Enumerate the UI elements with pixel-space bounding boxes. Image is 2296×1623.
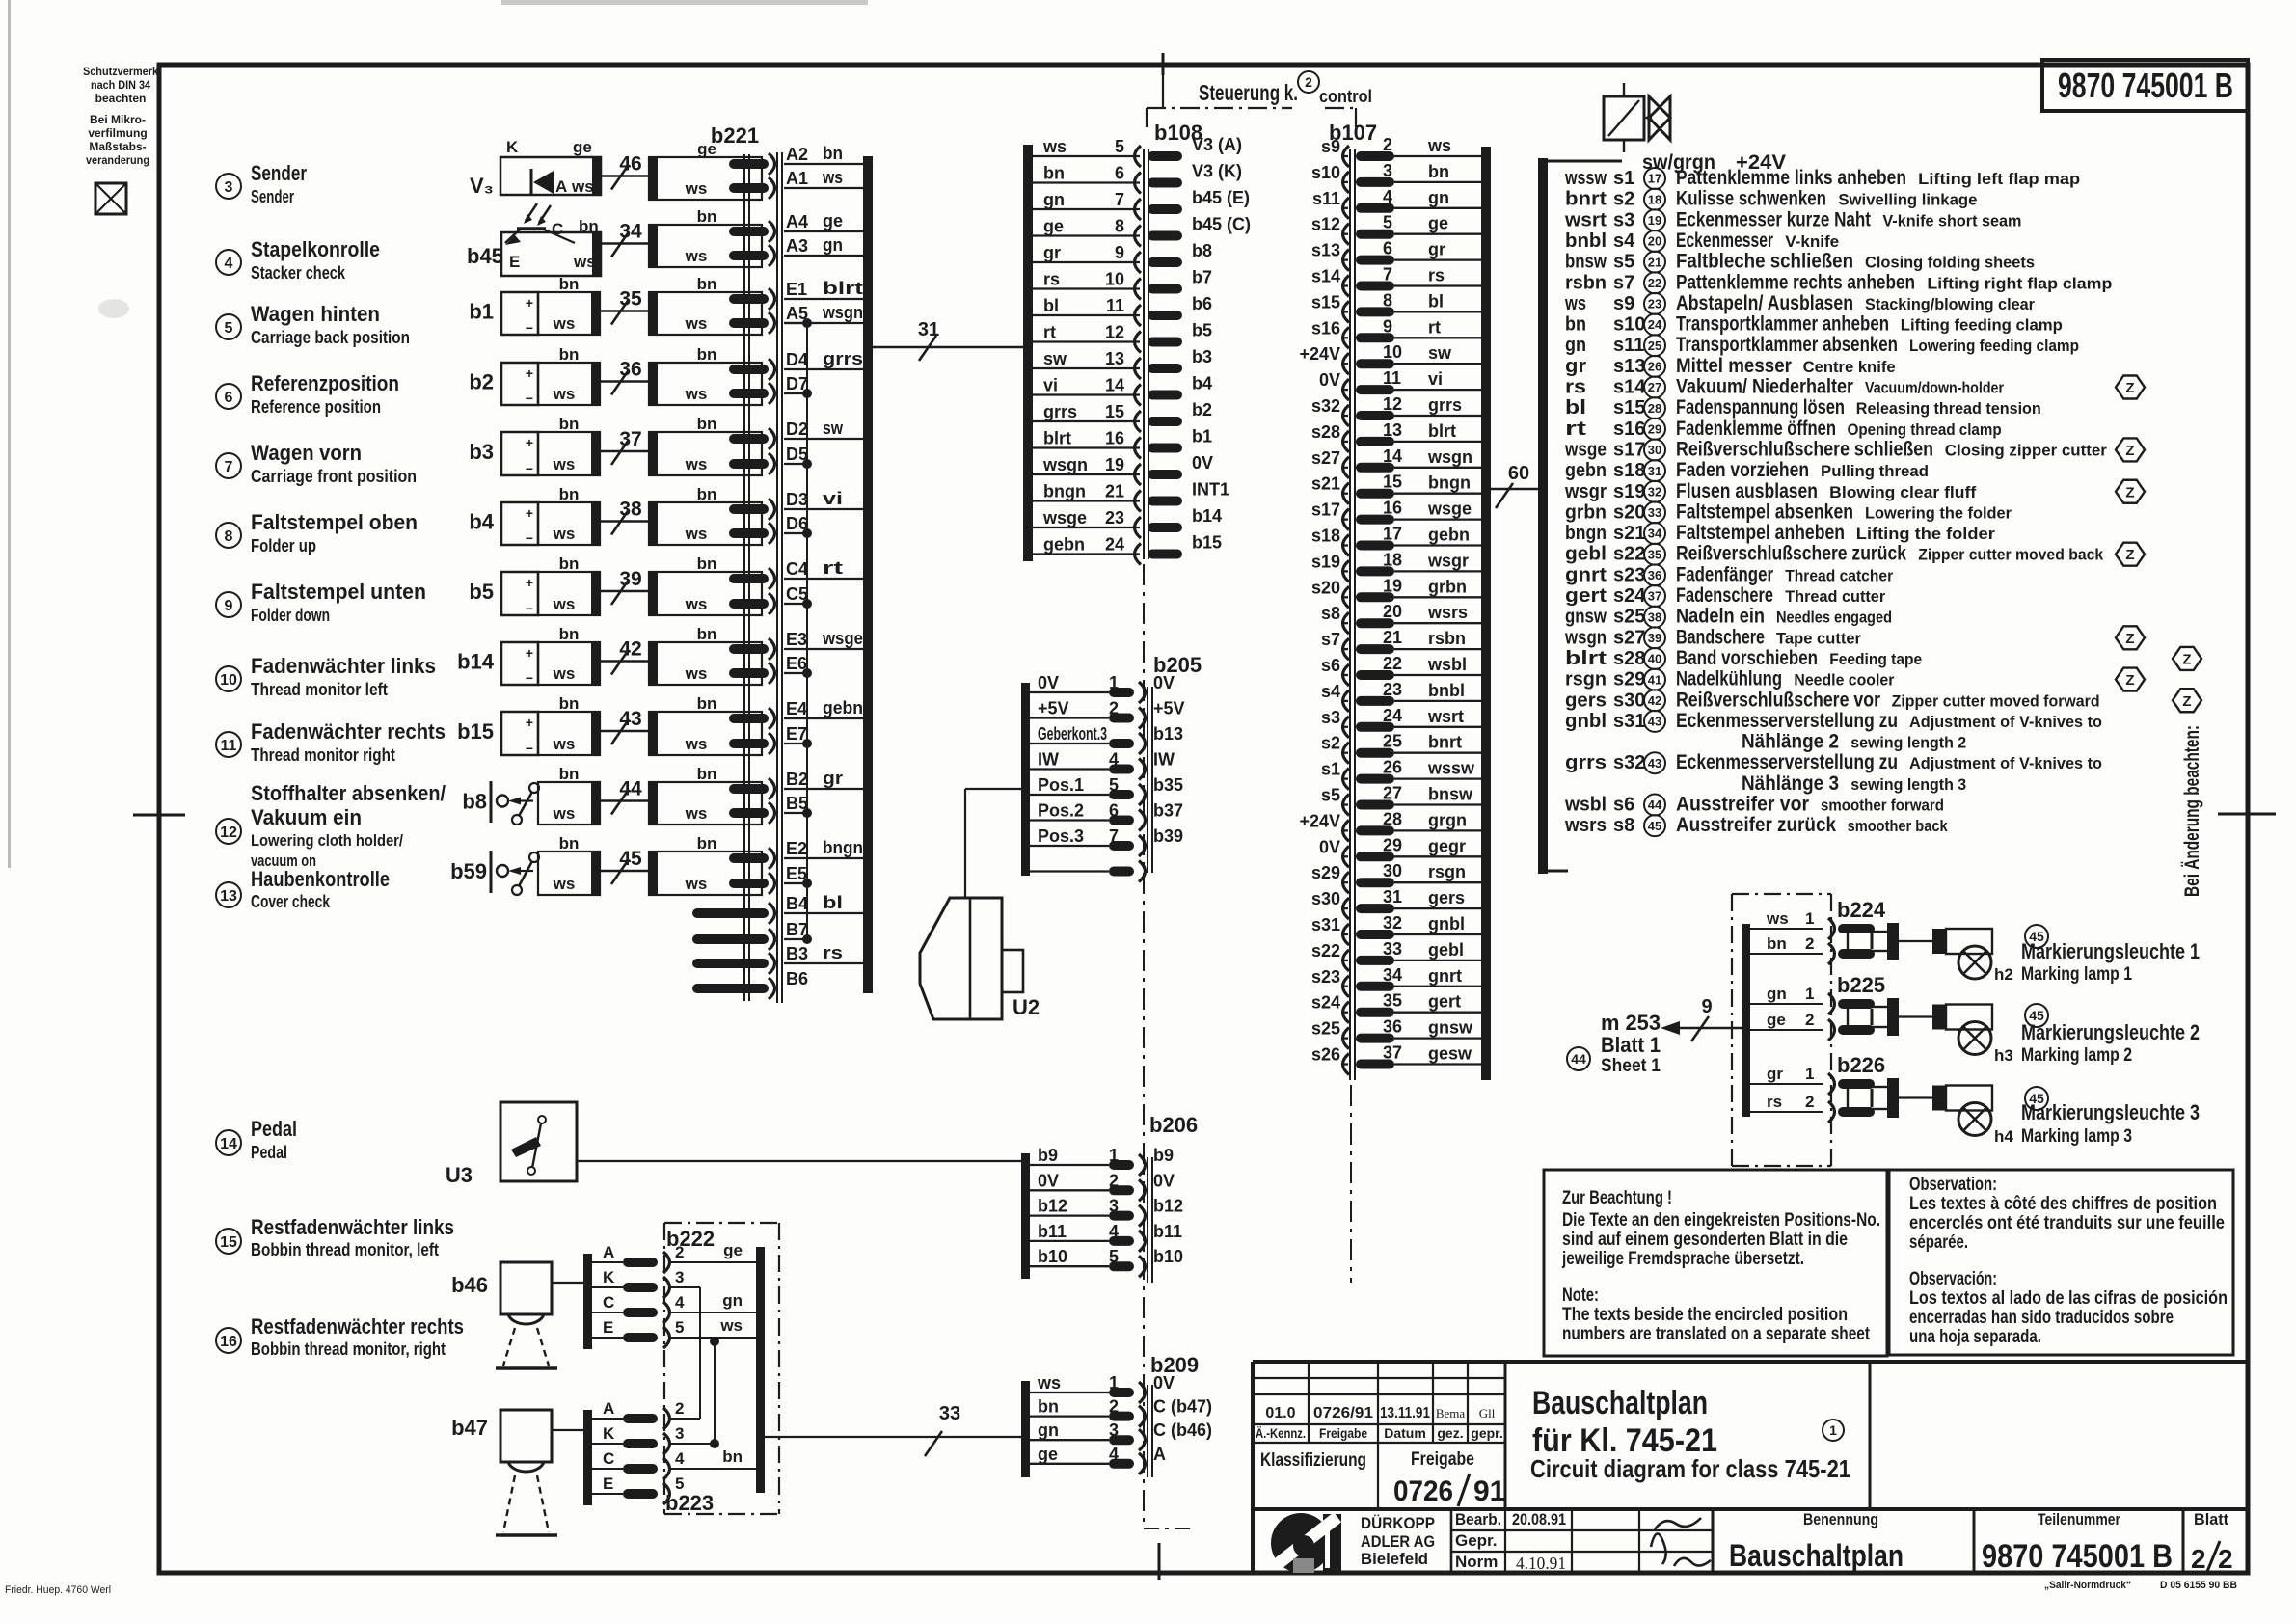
svg-text:b45: b45 bbox=[467, 244, 503, 268]
svg-text:4: 4 bbox=[1109, 1445, 1119, 1464]
svg-text:b13: b13 bbox=[1153, 724, 1183, 744]
svg-text:gn: gn bbox=[823, 235, 843, 255]
svg-text:26: 26 bbox=[1648, 360, 1661, 374]
svg-text:s31: s31 bbox=[1311, 915, 1340, 934]
svg-text:b3: b3 bbox=[1192, 347, 1212, 366]
svg-text:gegr: gegr bbox=[1428, 836, 1466, 855]
svg-text:Observación:: Observación: bbox=[1909, 1269, 1997, 1289]
svg-text:6: 6 bbox=[1383, 239, 1392, 258]
svg-text:gnrt: gnrt bbox=[1428, 966, 1462, 986]
svg-text:Restfadenwächter rechts: Restfadenwächter rechts bbox=[251, 1314, 464, 1339]
svg-text:01.0: 01.0 bbox=[1265, 1405, 1295, 1421]
svg-text:13: 13 bbox=[220, 888, 237, 905]
svg-text:Vacuum/down-holder: Vacuum/down-holder bbox=[1865, 379, 2004, 397]
svg-text:control: control bbox=[1319, 87, 1372, 106]
svg-text:Stapelkonrolle: Stapelkonrolle bbox=[251, 237, 380, 261]
svg-text:rt: rt bbox=[1565, 419, 1587, 440]
svg-text:b223: b223 bbox=[665, 1491, 714, 1515]
svg-text:veranderung: veranderung bbox=[86, 153, 149, 167]
svg-text:Faltstempel absenken: Faltstempel absenken bbox=[1676, 500, 1853, 523]
svg-text:Nählänge 3: Nählänge 3 bbox=[1742, 772, 1839, 795]
svg-text:3: 3 bbox=[1109, 1420, 1119, 1440]
svg-text:Needles engaged: Needles engaged bbox=[1776, 609, 1892, 627]
svg-text:gnsw: gnsw bbox=[1565, 607, 1607, 628]
svg-text:21: 21 bbox=[1383, 628, 1402, 647]
svg-text:s20: s20 bbox=[1311, 578, 1340, 597]
svg-text:20.08.91: 20.08.91 bbox=[1512, 1510, 1566, 1528]
svg-text:24: 24 bbox=[1648, 317, 1662, 332]
svg-text:16: 16 bbox=[1383, 499, 1402, 518]
svg-text:Nadelkühlung: Nadelkühlung bbox=[1676, 668, 1782, 690]
svg-text:Faden vorziehen: Faden vorziehen bbox=[1676, 459, 1809, 481]
svg-text:s22: s22 bbox=[1311, 941, 1340, 960]
svg-text:nach DIN 34: nach DIN 34 bbox=[91, 78, 150, 92]
svg-text:Stoffhalter absenken/: Stoffhalter absenken/ bbox=[251, 781, 446, 805]
svg-text:bn: bn bbox=[697, 765, 717, 783]
svg-text:ws: ws bbox=[553, 875, 576, 893]
svg-text:6: 6 bbox=[225, 390, 233, 406]
svg-text:16: 16 bbox=[220, 1334, 237, 1350]
svg-text:2: 2 bbox=[1109, 1171, 1119, 1190]
svg-text:DÜRKOPP: DÜRKOPP bbox=[1361, 1514, 1435, 1532]
svg-text:b14: b14 bbox=[1192, 506, 1222, 526]
svg-text:s19: s19 bbox=[1311, 552, 1340, 571]
svg-text:60: 60 bbox=[1508, 463, 1529, 484]
svg-text:h2: h2 bbox=[1994, 965, 2013, 984]
svg-text:Nählänge 2: Nählänge 2 bbox=[1742, 731, 1839, 753]
svg-text:gnbl: gnbl bbox=[1565, 711, 1607, 732]
svg-text:s8: s8 bbox=[1321, 604, 1340, 623]
svg-text:s23: s23 bbox=[1311, 967, 1340, 987]
svg-text:s18: s18 bbox=[1311, 527, 1340, 546]
svg-text:s32: s32 bbox=[1613, 752, 1645, 773]
svg-text:45: 45 bbox=[1648, 819, 1661, 833]
svg-text:rsbn: rsbn bbox=[1565, 272, 1607, 293]
svg-text:rs: rs bbox=[1428, 266, 1445, 285]
svg-text:43: 43 bbox=[1648, 756, 1661, 771]
svg-text:bnbl: bnbl bbox=[1565, 230, 1607, 252]
svg-text:Note:: Note: bbox=[1562, 1285, 1599, 1306]
svg-text:gebl: gebl bbox=[1565, 544, 1607, 565]
svg-text:ws: ws bbox=[1766, 909, 1789, 928]
svg-text:31: 31 bbox=[1648, 464, 1661, 478]
svg-text:42: 42 bbox=[619, 638, 641, 661]
svg-text:wsge: wsge bbox=[1427, 500, 1472, 519]
svg-text:2: 2 bbox=[1109, 1397, 1119, 1417]
svg-text:31: 31 bbox=[1383, 887, 1402, 906]
svg-text:wsge: wsge bbox=[1042, 508, 1087, 527]
svg-text:15: 15 bbox=[220, 1234, 237, 1251]
svg-text:wsgr: wsgr bbox=[1427, 551, 1469, 570]
svg-text:Nadeln ein: Nadeln ein bbox=[1676, 606, 1765, 628]
svg-text:b221: b221 bbox=[711, 123, 759, 148]
svg-text:5: 5 bbox=[1383, 213, 1392, 232]
svg-text:Sender: Sender bbox=[251, 161, 307, 185]
svg-text:ws: ws bbox=[685, 875, 708, 893]
svg-text:9: 9 bbox=[1383, 316, 1392, 336]
svg-text:Pos.2: Pos.2 bbox=[1038, 801, 1084, 821]
svg-text:s15: s15 bbox=[1311, 292, 1340, 311]
svg-text:43: 43 bbox=[619, 708, 641, 730]
svg-text:91: 91 bbox=[1473, 1475, 1505, 1507]
svg-text:bn: bn bbox=[559, 625, 580, 643]
svg-text:Z: Z bbox=[2125, 380, 2134, 396]
svg-text:Carriage back position: Carriage back position bbox=[251, 328, 410, 347]
svg-text:23: 23 bbox=[1383, 680, 1402, 699]
svg-text:Adjustment of V-knives to: Adjustment of V-knives to bbox=[1909, 713, 2102, 731]
svg-text:Steuerung k.: Steuerung k. bbox=[1199, 80, 1298, 105]
svg-text:wssw: wssw bbox=[1564, 168, 1607, 189]
svg-text:+: + bbox=[526, 505, 533, 521]
svg-text:21: 21 bbox=[1648, 255, 1661, 269]
svg-text:Blowing clear fluff: Blowing clear fluff bbox=[1829, 483, 1976, 501]
svg-text:K: K bbox=[603, 1424, 615, 1443]
svg-text:b11: b11 bbox=[1153, 1222, 1182, 1241]
svg-text:b5: b5 bbox=[1192, 321, 1212, 340]
svg-text:30: 30 bbox=[1383, 861, 1402, 880]
svg-text:2: 2 bbox=[675, 1399, 684, 1418]
svg-text:0726: 0726 bbox=[1393, 1475, 1453, 1507]
svg-text:bl: bl bbox=[823, 893, 843, 912]
svg-text:Adjustment of V-knives to: Adjustment of V-knives to bbox=[1909, 754, 2102, 772]
svg-text:27: 27 bbox=[1383, 784, 1402, 803]
svg-text:s1: s1 bbox=[1613, 168, 1634, 189]
svg-text:E1: E1 bbox=[786, 280, 807, 299]
svg-text:V₃: V₃ bbox=[470, 174, 494, 198]
svg-text:B6: B6 bbox=[786, 969, 808, 988]
svg-text:Lowering the folder: Lowering the folder bbox=[1865, 503, 2012, 522]
svg-text:V3 (K): V3 (K) bbox=[1192, 162, 1242, 181]
svg-text:1: 1 bbox=[1805, 1065, 1814, 1083]
svg-text:Markierungsleuchte 1: Markierungsleuchte 1 bbox=[2021, 939, 2200, 963]
svg-text:41: 41 bbox=[1648, 672, 1661, 687]
svg-text:bn: bn bbox=[1038, 1397, 1059, 1417]
svg-text:vi: vi bbox=[823, 489, 843, 508]
svg-text:bl: bl bbox=[1043, 296, 1059, 315]
svg-text:11: 11 bbox=[221, 738, 237, 754]
svg-text:gn: gn bbox=[1428, 188, 1449, 207]
svg-text:0V: 0V bbox=[1192, 453, 1213, 473]
svg-text:Swivelling linkage: Swivelling linkage bbox=[1838, 191, 1977, 209]
svg-text:ws: ws bbox=[553, 385, 576, 403]
svg-text:gebn: gebn bbox=[1428, 526, 1470, 545]
svg-text:Fadenschere: Fadenschere bbox=[1676, 584, 1773, 607]
svg-text:8: 8 bbox=[1383, 290, 1392, 310]
svg-text:bngn: bngn bbox=[1565, 523, 1607, 544]
svg-text:beachten: beachten bbox=[95, 92, 147, 105]
svg-text:E2: E2 bbox=[786, 839, 807, 858]
svg-text:wsgn: wsgn bbox=[1042, 455, 1088, 474]
svg-text:Centre knife: Centre knife bbox=[1803, 358, 1896, 376]
svg-text:s21: s21 bbox=[1613, 523, 1645, 544]
svg-text:gepr.: gepr. bbox=[1471, 1425, 1502, 1441]
svg-text:1: 1 bbox=[1829, 1422, 1837, 1438]
svg-text:s29: s29 bbox=[1613, 669, 1645, 690]
svg-text:gebn: gebn bbox=[1565, 460, 1607, 481]
svg-text:h3: h3 bbox=[1994, 1046, 2013, 1065]
svg-text:s16: s16 bbox=[1613, 419, 1645, 440]
svg-text:Haubenkontrolle: Haubenkontrolle bbox=[251, 867, 390, 891]
svg-text:bn: bn bbox=[559, 765, 580, 783]
svg-text:4.10.91: 4.10.91 bbox=[1516, 1554, 1566, 1573]
svg-text:s14: s14 bbox=[1311, 267, 1340, 286]
svg-text:gnbl: gnbl bbox=[1428, 914, 1465, 933]
svg-text:ADLER AG: ADLER AG bbox=[1361, 1532, 1435, 1551]
svg-text:A3: A3 bbox=[786, 236, 808, 256]
svg-text:35: 35 bbox=[619, 288, 642, 311]
svg-text:rs: rs bbox=[823, 943, 843, 962]
svg-text:s32: s32 bbox=[1311, 396, 1340, 416]
svg-text:bn: bn bbox=[1428, 162, 1449, 181]
svg-text:Fadenwächter links: Fadenwächter links bbox=[251, 654, 436, 678]
svg-text:Z: Z bbox=[2182, 651, 2191, 667]
svg-text:C: C bbox=[603, 1293, 614, 1312]
svg-text:E: E bbox=[509, 253, 520, 271]
svg-text:ws: ws bbox=[1427, 136, 1451, 155]
svg-text:Wagen hinten: Wagen hinten bbox=[251, 302, 380, 326]
svg-text:IW: IW bbox=[1038, 750, 1059, 770]
svg-text:wsge: wsge bbox=[822, 629, 863, 648]
svg-text:38: 38 bbox=[1648, 609, 1661, 624]
svg-text:Circuit diagram for class: Circuit diagram for class 745-21 bbox=[1530, 1454, 1850, 1483]
svg-text:+24V: +24V bbox=[1299, 344, 1340, 364]
svg-text:Maßstabs-: Maßstabs- bbox=[89, 140, 146, 153]
svg-text:5: 5 bbox=[1109, 1247, 1119, 1266]
svg-text:Z: Z bbox=[2125, 547, 2134, 563]
svg-text:Bema: Bema bbox=[1436, 1406, 1466, 1420]
svg-text:bn: bn bbox=[697, 485, 717, 503]
svg-text:24: 24 bbox=[1105, 535, 1124, 555]
svg-text:Zipper cutter moved back: Zipper cutter moved back bbox=[1918, 546, 2104, 564]
svg-text:6: 6 bbox=[1115, 164, 1124, 183]
svg-text:Lowering feeding clamp: Lowering feeding clamp bbox=[1909, 337, 2079, 355]
svg-text:8: 8 bbox=[225, 528, 233, 545]
svg-text:Fadenfänger: Fadenfänger bbox=[1676, 563, 1773, 585]
svg-text:Ä.-Kennz.: Ä.-Kennz. bbox=[1256, 1425, 1306, 1441]
svg-text:gebn: gebn bbox=[1043, 535, 1085, 555]
svg-text:blrt: blrt bbox=[823, 279, 863, 298]
svg-text:b224: b224 bbox=[1837, 898, 1886, 922]
svg-text:4: 4 bbox=[1109, 750, 1119, 770]
svg-text:gert: gert bbox=[1565, 585, 1607, 607]
svg-text:gebn: gebn bbox=[823, 698, 863, 717]
svg-text:E: E bbox=[603, 1474, 613, 1493]
svg-text:+24V: +24V bbox=[1299, 811, 1340, 830]
svg-text:4: 4 bbox=[1383, 187, 1392, 206]
svg-text:b226: b226 bbox=[1837, 1053, 1885, 1077]
svg-text:bngn: bngn bbox=[823, 838, 863, 857]
svg-text:Pattenklemme links anheben: Pattenklemme links anheben bbox=[1676, 167, 1906, 189]
svg-text:bn: bn bbox=[1043, 164, 1065, 183]
svg-text:20: 20 bbox=[1383, 602, 1402, 621]
svg-text:s2: s2 bbox=[1321, 734, 1340, 753]
svg-text:b10: b10 bbox=[1153, 1247, 1183, 1266]
svg-text:ge: ge bbox=[573, 138, 592, 156]
svg-text:7: 7 bbox=[1383, 265, 1392, 284]
svg-text:s27: s27 bbox=[1613, 627, 1645, 648]
svg-text:U3: U3 bbox=[446, 1163, 473, 1187]
svg-text:wssw: wssw bbox=[1427, 759, 1475, 778]
svg-text:D 05 6155 90 BB: D 05 6155 90 BB bbox=[2160, 1580, 2237, 1591]
svg-text:ws: ws bbox=[1037, 1373, 1061, 1393]
svg-text:−: − bbox=[526, 741, 533, 756]
svg-text:+: + bbox=[526, 715, 533, 730]
svg-text:29: 29 bbox=[1648, 421, 1661, 436]
svg-text:bnrt: bnrt bbox=[1428, 733, 1462, 752]
svg-text:ws: ws bbox=[553, 314, 576, 333]
svg-text:s6: s6 bbox=[1321, 656, 1340, 675]
svg-text:Pedal: Pedal bbox=[251, 1143, 287, 1162]
svg-text:Bauschaltplan: Bauschaltplan bbox=[1729, 1538, 1904, 1573]
svg-text:Z: Z bbox=[2125, 631, 2134, 647]
svg-text:29: 29 bbox=[1383, 835, 1402, 854]
svg-text:Bei Mikro-: Bei Mikro- bbox=[90, 113, 146, 126]
svg-text:Lifting feeding clamp: Lifting feeding clamp bbox=[1901, 316, 2063, 335]
svg-text:ws: ws bbox=[571, 177, 594, 196]
svg-text:bn: bn bbox=[697, 207, 717, 226]
svg-text:Reißverschlußschere schließen: Reißverschlußschere schließen bbox=[1676, 438, 1933, 460]
svg-text:s23: s23 bbox=[1613, 564, 1645, 585]
svg-text:19: 19 bbox=[1383, 576, 1402, 595]
svg-text:14: 14 bbox=[220, 1136, 237, 1152]
svg-text:sw: sw bbox=[1043, 349, 1067, 368]
svg-text:Thread monitor right: Thread monitor right bbox=[251, 745, 395, 765]
svg-text:Bobbin thread monitor, left: Bobbin thread monitor, left bbox=[251, 1240, 439, 1259]
svg-text:séparée.: séparée. bbox=[1909, 1232, 1968, 1253]
svg-text:ws: ws bbox=[685, 179, 708, 198]
svg-text:wsgn: wsgn bbox=[822, 303, 863, 322]
svg-text:rsgn: rsgn bbox=[1428, 862, 1466, 881]
svg-text:Z: Z bbox=[2182, 693, 2191, 710]
svg-text:Freigabe: Freigabe bbox=[1411, 1449, 1474, 1470]
svg-text:Tape cutter: Tape cutter bbox=[1776, 629, 1861, 647]
svg-text:s3: s3 bbox=[1321, 708, 1340, 727]
svg-text:Marking lamp 3: Marking lamp 3 bbox=[2021, 1126, 2132, 1147]
svg-text:Blatt 1: Blatt 1 bbox=[1601, 1033, 1661, 1057]
svg-text:10: 10 bbox=[1383, 342, 1402, 362]
svg-text:s10: s10 bbox=[1311, 163, 1340, 182]
svg-text:una hoja separada.: una hoja separada. bbox=[1909, 1327, 2041, 1347]
svg-text:bn: bn bbox=[559, 555, 580, 573]
svg-text:blrt: blrt bbox=[1043, 429, 1071, 448]
svg-text:B4: B4 bbox=[786, 894, 808, 913]
svg-text:33: 33 bbox=[1383, 939, 1402, 959]
svg-text:s18: s18 bbox=[1613, 460, 1645, 481]
svg-text:V-knife: V-knife bbox=[1785, 232, 1839, 251]
svg-text:19: 19 bbox=[1648, 213, 1661, 228]
svg-text:Z: Z bbox=[2125, 443, 2134, 459]
svg-text:+5V: +5V bbox=[1038, 699, 1069, 718]
svg-text:Markierungsleuchte 3: Markierungsleuchte 3 bbox=[2021, 1100, 2200, 1124]
svg-text:Reißverschlußschere zurück: Reißverschlußschere zurück bbox=[1676, 543, 1906, 565]
svg-text:rs: rs bbox=[1767, 1093, 1782, 1111]
svg-text:K: K bbox=[603, 1268, 615, 1286]
svg-text:2: 2 bbox=[1305, 74, 1312, 90]
svg-text:b4: b4 bbox=[469, 510, 494, 534]
svg-text:U2: U2 bbox=[1013, 995, 1040, 1019]
svg-text:Geberkont.3: Geberkont.3 bbox=[1038, 724, 1107, 744]
svg-text:ws: ws bbox=[685, 314, 708, 333]
svg-text:ws: ws bbox=[553, 595, 576, 613]
svg-text:Pattenklemme rechts anheben: Pattenklemme rechts anheben bbox=[1676, 271, 1915, 293]
svg-text:INT1: INT1 bbox=[1192, 480, 1229, 500]
svg-text:Fadenklemme öffnen: Fadenklemme öffnen bbox=[1676, 418, 1836, 440]
svg-text:grgn: grgn bbox=[1428, 810, 1467, 829]
svg-text:+: + bbox=[526, 295, 533, 311]
svg-text:smoother back: smoother back bbox=[1848, 817, 1948, 835]
svg-text:Feeding tape: Feeding tape bbox=[1829, 650, 1922, 668]
svg-text:wsgn: wsgn bbox=[1564, 627, 1607, 648]
svg-text:ws: ws bbox=[553, 455, 576, 473]
svg-text:s26: s26 bbox=[1311, 1045, 1340, 1065]
svg-text:smoother forward: smoother forward bbox=[1821, 797, 1944, 815]
svg-text:rs: rs bbox=[1565, 377, 1586, 398]
svg-text:9870 745001 B: 9870 745001 B bbox=[1982, 1538, 2173, 1575]
svg-text:s4: s4 bbox=[1613, 230, 1635, 252]
svg-text:Eckenmesserverstellung zu: Eckenmesserverstellung zu bbox=[1676, 751, 1898, 773]
svg-text:bn: bn bbox=[697, 625, 717, 643]
svg-text:19: 19 bbox=[1105, 455, 1124, 474]
svg-text:14: 14 bbox=[1383, 446, 1402, 466]
svg-text:b6: b6 bbox=[1192, 294, 1212, 313]
svg-text:−: − bbox=[526, 461, 533, 476]
svg-text:b12: b12 bbox=[1153, 1197, 1183, 1216]
svg-text:D4: D4 bbox=[786, 350, 808, 369]
svg-text:s16: s16 bbox=[1311, 318, 1340, 338]
svg-text:−: − bbox=[526, 320, 533, 336]
svg-text:s11: s11 bbox=[1312, 189, 1340, 208]
svg-text:Bandschere: Bandschere bbox=[1676, 626, 1765, 648]
svg-text:grrs: grrs bbox=[823, 349, 863, 368]
svg-text:B3: B3 bbox=[786, 944, 808, 963]
svg-text:b12: b12 bbox=[1038, 1197, 1067, 1216]
svg-text:vi: vi bbox=[1428, 369, 1443, 389]
svg-text:b35: b35 bbox=[1153, 775, 1183, 795]
svg-text:2: 2 bbox=[1805, 1011, 1814, 1029]
svg-text:Closing folding sheets: Closing folding sheets bbox=[1865, 254, 2035, 272]
svg-text:gn: gn bbox=[1565, 335, 1586, 356]
svg-text:b5: b5 bbox=[469, 580, 494, 604]
svg-text:0V: 0V bbox=[1319, 837, 1340, 856]
svg-text:37: 37 bbox=[1383, 1043, 1402, 1063]
svg-text:ge: ge bbox=[1043, 217, 1064, 236]
svg-text:b1: b1 bbox=[1192, 427, 1212, 446]
svg-text:ws: ws bbox=[685, 385, 708, 403]
svg-text:24: 24 bbox=[1383, 706, 1402, 725]
svg-text:Gepr.: Gepr. bbox=[1455, 1531, 1497, 1550]
svg-text:b10: b10 bbox=[1038, 1247, 1067, 1266]
svg-text:33: 33 bbox=[939, 1403, 960, 1424]
svg-text:B2: B2 bbox=[786, 770, 808, 789]
svg-text:Thread cutter: Thread cutter bbox=[1785, 587, 1885, 606]
svg-text:Eckenmesser kurze Naht: Eckenmesser kurze Naht bbox=[1676, 208, 1871, 230]
svg-text:D3: D3 bbox=[786, 490, 808, 509]
svg-text:21: 21 bbox=[1105, 482, 1124, 501]
svg-text:rsbn: rsbn bbox=[1428, 629, 1466, 648]
svg-text:Bielefeld: Bielefeld bbox=[1361, 1550, 1428, 1568]
svg-text:h4: h4 bbox=[1994, 1127, 2013, 1146]
svg-text:ws: ws bbox=[553, 525, 576, 543]
svg-text:39: 39 bbox=[619, 568, 641, 590]
svg-text:gn: gn bbox=[1038, 1420, 1059, 1440]
svg-text:0V: 0V bbox=[1153, 1373, 1175, 1393]
svg-text:rs: rs bbox=[1043, 270, 1060, 289]
svg-text:s6: s6 bbox=[1613, 795, 1634, 816]
svg-text:2: 2 bbox=[1383, 135, 1392, 154]
svg-text:ws: ws bbox=[685, 595, 708, 613]
svg-text:17: 17 bbox=[1648, 172, 1661, 186]
svg-text:1: 1 bbox=[1805, 985, 1814, 1003]
